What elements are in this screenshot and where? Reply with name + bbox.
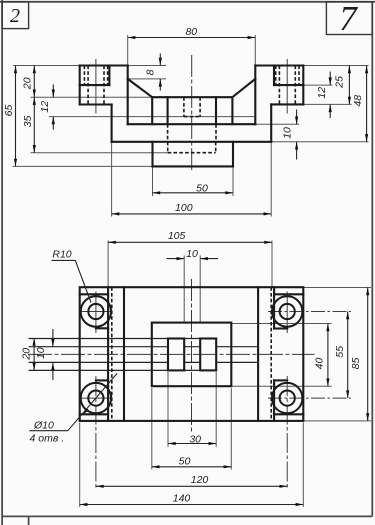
right ear interior vertical <box>273 66 275 86</box>
svg-text:50: 50 <box>196 182 208 194</box>
slab top <box>128 123 256 125</box>
pad BR stub <box>274 379 287 381</box>
dimension 8 <box>145 54 161 91</box>
dimension 65 <box>3 66 15 167</box>
dimension 35 <box>22 97 34 153</box>
hidden pocket bottom in boss <box>167 142 169 153</box>
pad TL stub <box>96 327 108 329</box>
ext funnel bottom for 20/35 <box>31 96 153 98</box>
ext 80 left <box>127 35 129 66</box>
central pocket rect <box>152 323 232 387</box>
centerline TR pad horizontal ext 55 <box>268 311 351 313</box>
svg-text:2: 2 <box>10 5 20 27</box>
svg-text:8: 8 <box>145 69 157 75</box>
svg-text:10: 10 <box>281 127 293 139</box>
centerline left ear hole front view <box>95 59 97 114</box>
svg-text:R10: R10 <box>52 249 71 261</box>
ext boss bottom for 65 <box>13 165 153 167</box>
hidden left ear hole <box>87 66 89 105</box>
svg-text:12: 12 <box>316 87 328 99</box>
centerline TR pad vertical <box>286 292 288 334</box>
ext 100 right <box>270 142 272 217</box>
centerline BL pad horizontal <box>82 397 112 399</box>
ext step for 25 <box>303 103 351 105</box>
svg-text:Ø10: Ø10 <box>33 419 54 431</box>
svg-text:120: 120 <box>191 474 209 486</box>
hidden step edge left <box>111 287 113 421</box>
dimension 40 <box>313 324 328 387</box>
dimension 105 <box>108 230 272 243</box>
svg-text:10: 10 <box>35 347 47 359</box>
ext top ref for dim 8 <box>128 65 166 67</box>
left ear interior horizontal <box>80 84 110 86</box>
ext 140 left <box>79 423 81 508</box>
pocket wall left <box>151 97 153 124</box>
hidden right ear hole <box>278 66 280 105</box>
block right side <box>254 66 256 125</box>
ext 50 right <box>230 388 232 470</box>
ext pocket bottom for 35 <box>31 152 168 154</box>
svg-text:50: 50 <box>179 455 191 467</box>
top edge left <box>80 64 128 66</box>
ext 40 bottom <box>231 385 331 387</box>
hidden lines plan view <box>112 287 271 421</box>
ext slab bottom for 48/10 <box>271 141 368 143</box>
dimension 10 plan left <box>35 329 53 380</box>
dimension 140 <box>80 493 304 505</box>
dimension 10 right <box>281 110 296 160</box>
svg-text:10: 10 <box>186 248 198 260</box>
hidden slot notch <box>183 97 185 116</box>
ext ear line for 12 right <box>303 84 332 86</box>
ext hidden step for 12 left <box>49 116 255 118</box>
pad boss circles <box>81 296 303 413</box>
centerline BR pad vertical ext 120 <box>286 376 288 489</box>
dimension 48 <box>352 66 367 142</box>
dimension 30 <box>168 434 216 446</box>
svg-text:100: 100 <box>175 202 193 214</box>
svg-text:48: 48 <box>352 95 364 107</box>
thick outline plan view <box>80 287 304 421</box>
pad BR step <box>274 413 303 415</box>
ext 105 left <box>107 241 109 288</box>
slot inner top line <box>29 346 168 348</box>
ext 105 right <box>271 241 273 288</box>
svg-text:25: 25 <box>334 76 346 89</box>
thick outline front view <box>80 66 304 167</box>
funnel right slope <box>232 79 255 97</box>
funnel left slope <box>128 79 153 97</box>
slot outer bottom line <box>29 369 168 371</box>
dimension 120 <box>96 474 287 486</box>
ext 140 right <box>302 423 304 508</box>
svg-text:55: 55 <box>334 346 346 358</box>
dimension 12 right <box>316 72 330 119</box>
svg-text:7: 7 <box>339 0 358 38</box>
ext 50 left <box>152 166 154 196</box>
dimension 50 plan <box>152 455 232 467</box>
slot outer bottom between rects <box>184 369 200 371</box>
ext top-left for 65/20 <box>13 65 80 67</box>
hidden pocket walls through slab <box>167 124 169 142</box>
slab bottom <box>112 141 272 143</box>
small rect left <box>168 339 184 371</box>
ext 85 bottom <box>303 420 371 422</box>
svg-text:80: 80 <box>185 26 197 38</box>
centerline TL pad vertical <box>95 292 97 334</box>
ext 50 right <box>232 166 234 196</box>
dimension 55 <box>334 312 348 399</box>
right outer edge <box>302 66 304 105</box>
pad BR vertical <box>273 380 275 421</box>
svg-text:12: 12 <box>39 101 51 113</box>
ext funnel ledge ref for dim 8 <box>128 78 166 80</box>
right ear interior horizontal <box>274 84 303 86</box>
svg-text:20: 20 <box>22 77 34 90</box>
inner wall left <box>167 97 169 124</box>
slot outer top line <box>29 338 168 340</box>
left strip line <box>107 287 109 421</box>
ext slab top for 10 <box>255 123 299 125</box>
ext 30 left <box>167 372 169 447</box>
centerline BR pad horizontal ext 55 <box>268 397 351 399</box>
extension lines front view <box>13 35 369 217</box>
top edge right <box>255 64 303 66</box>
svg-text:140: 140 <box>173 493 191 505</box>
dimension 20 plan left <box>21 338 35 371</box>
small rect right <box>200 339 216 371</box>
slot inner bottom line <box>29 361 168 363</box>
centerline right ear hole front view <box>286 59 288 114</box>
corner box 2 <box>2 2 29 29</box>
inner wall right <box>215 97 217 124</box>
centerline TL pad horizontal <box>82 311 112 313</box>
ext 10 slot left <box>183 256 185 323</box>
hidden right counterbore <box>275 66 277 86</box>
dimension 85 <box>350 288 368 421</box>
hidden step edge right <box>270 287 272 421</box>
centerline horizontal plan view <box>28 353 315 355</box>
boss left edge <box>151 142 153 167</box>
hidden left counterbore <box>83 66 85 86</box>
pad TR vertical <box>273 287 275 328</box>
ext 40 top <box>231 323 331 325</box>
svg-text:40: 40 <box>313 358 325 370</box>
slot outer top between rects <box>184 338 200 340</box>
left step horizontal <box>80 103 112 105</box>
ext 85 top <box>303 287 371 289</box>
svg-text:105: 105 <box>168 230 186 242</box>
ext top-right for 25/48 <box>303 65 368 67</box>
dimension 80 <box>128 26 256 38</box>
ext 100 left <box>111 142 113 217</box>
centerline BL pad vertical ext 120 <box>95 376 97 489</box>
dimension 100 <box>112 202 272 214</box>
extension lines plan view <box>80 241 371 508</box>
label diameter 10 4 holes with leader <box>29 374 117 445</box>
left outer edge <box>79 66 81 105</box>
corner box 7 <box>326 2 372 35</box>
right inner line <box>257 287 259 421</box>
dimension 25 right <box>334 66 350 105</box>
block left side <box>127 66 129 125</box>
pad BL stub <box>96 379 108 381</box>
slot lines plan view <box>29 339 259 371</box>
svg-text:4 отв .: 4 отв . <box>30 432 65 444</box>
pad hole circles <box>88 304 295 406</box>
ext 10 slot right <box>199 256 201 323</box>
pad TR step <box>274 293 303 295</box>
left inner line <box>123 287 125 421</box>
right step vertical <box>270 104 272 141</box>
right step horizontal <box>271 103 303 105</box>
centerline main axis front view <box>191 55 193 172</box>
dimension 50 front <box>153 182 234 194</box>
svg-text:35: 35 <box>22 116 34 128</box>
pad TL step <box>80 293 108 295</box>
dimension 10 slot top <box>167 248 219 260</box>
boss bottom <box>153 165 234 167</box>
ext 80 right <box>254 35 256 66</box>
pad BL step <box>80 413 108 415</box>
left step vertical <box>111 105 113 142</box>
svg-text:20: 20 <box>21 348 33 361</box>
label R10 with leader <box>52 249 92 303</box>
ext 50 left <box>151 388 153 470</box>
funnel bottom <box>152 96 232 98</box>
pocket wall right <box>231 97 233 124</box>
dimension 12 left <box>39 85 54 130</box>
boss right edge <box>232 142 234 167</box>
svg-text:65: 65 <box>3 105 15 117</box>
ext 30 right <box>215 372 217 447</box>
svg-text:85: 85 <box>350 358 362 370</box>
plate outline <box>80 287 304 421</box>
pad TR stub <box>274 327 287 329</box>
hidden lines front view <box>84 66 299 153</box>
dimension 20 left <box>22 66 35 98</box>
left ear interior vertical <box>108 66 110 86</box>
centerline vertical plan view <box>191 279 193 434</box>
svg-text:30: 30 <box>189 434 201 446</box>
